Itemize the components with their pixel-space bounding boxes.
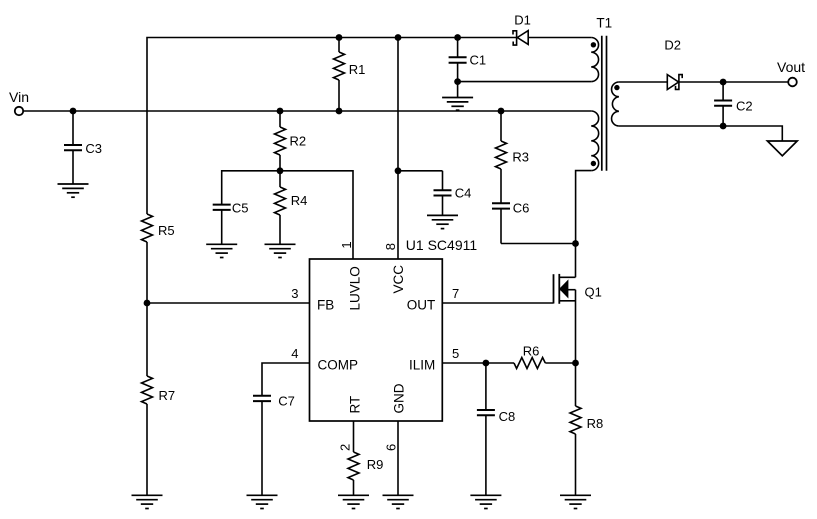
ground (C3) <box>58 184 89 197</box>
diode D1 (schottky, cathode left) <box>513 31 517 45</box>
svg-text:T1: T1 <box>596 15 612 30</box>
ground (C5) <box>206 244 237 257</box>
ground (R7) <box>132 495 163 508</box>
node C1 top junction <box>454 34 461 41</box>
diode D2 (schottky, cathode right) <box>667 75 678 90</box>
node R1 top junction <box>336 34 343 41</box>
svg-text:RT: RT <box>348 396 363 414</box>
svg-text:OUT: OUT <box>407 298 436 313</box>
transformer T1 secondary winding <box>612 82 619 126</box>
resistor R4 <box>279 171 281 187</box>
node R3 top junction <box>498 108 505 115</box>
svg-text:C8: C8 <box>499 409 516 424</box>
svg-text:7: 7 <box>452 286 459 301</box>
capacitor C1 <box>457 38 459 58</box>
svg-text:C2: C2 <box>736 99 753 114</box>
svg-text:Q1: Q1 <box>585 284 602 299</box>
node T1 aux phase dot <box>591 42 596 47</box>
wire secondary bottom lead <box>619 126 782 141</box>
node FB divider junction <box>144 300 151 307</box>
svg-text:Vout: Vout <box>777 59 805 75</box>
terminal Vin <box>15 107 23 115</box>
node C1 bottom junction <box>454 78 461 85</box>
ground (R4) <box>265 244 296 257</box>
resistor R7 <box>142 376 153 404</box>
svg-text:Vin: Vin <box>9 89 29 105</box>
resistor R3 <box>500 111 502 141</box>
resistor R8 <box>575 363 577 406</box>
svg-text:R2: R2 <box>290 134 307 149</box>
wire left vertical bottom (R7 to ground) <box>146 404 148 495</box>
svg-text:R9: R9 <box>367 457 384 472</box>
wire GND pin 6 <box>397 421 399 495</box>
capacitor C6 <box>492 202 510 204</box>
node C2 bottom junction <box>720 123 727 130</box>
node Vin/C3 junction <box>70 108 77 115</box>
svg-text:R6: R6 <box>523 344 540 359</box>
svg-text:FB: FB <box>317 298 334 313</box>
wire top rail left segment <box>147 38 517 215</box>
capacitor C8 <box>485 363 487 410</box>
svg-text:U1 SC4911: U1 SC4911 <box>406 237 478 253</box>
svg-text:R1: R1 <box>349 62 366 77</box>
wire Q1 source <box>575 290 577 363</box>
node T1 primary phase dot <box>591 161 596 166</box>
svg-text:C6: C6 <box>513 200 530 215</box>
node Q1 drain junction <box>572 240 579 247</box>
op-amp U1 IC body SC4911 <box>310 259 443 421</box>
svg-text:R4: R4 <box>291 193 308 208</box>
wire Q1 drain <box>575 244 577 278</box>
resistor R2 <box>279 111 281 127</box>
wire ILIM pin 5 <box>442 362 514 364</box>
terminal Vout <box>788 78 797 87</box>
resistor R6 <box>514 358 545 369</box>
capacitor C7 <box>253 395 271 397</box>
svg-text:C1: C1 <box>470 53 487 68</box>
ground (C4) <box>427 215 458 228</box>
svg-text:2: 2 <box>338 444 353 451</box>
svg-text:LUVLO: LUVLO <box>348 266 363 310</box>
transistor Q1 MOSFET <box>553 274 555 303</box>
ground triangle (output) <box>767 141 797 156</box>
wire secondary top lead to D2 <box>619 81 667 83</box>
node R1 bottom junction <box>336 108 343 115</box>
capacitor C2 <box>722 82 724 101</box>
wire RT pin 2 <box>353 421 355 452</box>
ground (R8) <box>560 495 591 508</box>
svg-text:D2: D2 <box>664 38 681 53</box>
svg-text:C7: C7 <box>278 393 295 408</box>
wire Vin rail <box>23 110 591 112</box>
svg-text:COMP: COMP <box>318 358 359 373</box>
ground (C1) <box>442 98 473 111</box>
resistor R9 <box>348 452 359 480</box>
ground (C8) <box>470 495 501 508</box>
transformer T1 primary aux winding <box>591 38 598 82</box>
svg-text:R8: R8 <box>587 416 604 431</box>
svg-text:8: 8 <box>383 243 398 250</box>
node R6/R8 junction <box>572 360 579 367</box>
svg-text:VCC: VCC <box>391 265 406 294</box>
resistor R1 <box>338 38 340 53</box>
svg-text:R7: R7 <box>159 388 176 403</box>
svg-text:5: 5 <box>452 346 459 361</box>
svg-text:C4: C4 <box>455 185 472 200</box>
capacitor C4 <box>442 171 444 190</box>
transformer T1 primary main winding <box>591 111 598 171</box>
svg-text:4: 4 <box>291 346 298 361</box>
wire VCC to C4 <box>398 170 443 172</box>
wire OUT pin 7 to Q1 gate <box>442 302 553 304</box>
wire C6 to drain node <box>501 243 576 245</box>
wire COMP pin 4 to C7 <box>262 363 310 396</box>
svg-text:1: 1 <box>339 241 354 248</box>
node T1 secondary phase dot <box>614 85 619 90</box>
wire C1 bottom to T1 aux winding <box>458 81 592 83</box>
svg-text:R3: R3 <box>512 149 529 164</box>
svg-text:ILIM: ILIM <box>409 358 435 373</box>
wire T1 primary bottom lead <box>576 171 592 244</box>
transformer T1 core <box>601 36 603 171</box>
svg-text:C5: C5 <box>232 201 249 216</box>
svg-text:D1: D1 <box>514 13 531 28</box>
node VCC top junction <box>395 34 402 41</box>
wire D2 to Vout <box>679 81 788 83</box>
ground (GND pin) <box>383 495 414 508</box>
node C2 top junction <box>720 79 727 86</box>
capacitor C5 <box>213 204 231 206</box>
ground (C7) <box>247 495 278 508</box>
svg-text:C3: C3 <box>85 141 102 156</box>
svg-text:6: 6 <box>383 444 398 451</box>
resistor R5 <box>142 214 153 242</box>
capacitor C3 <box>72 111 74 145</box>
node ILIM/C8 junction <box>483 360 490 367</box>
wire left vertical mid (R5 to R7 through FB node) <box>146 242 148 376</box>
svg-text:3: 3 <box>291 286 298 301</box>
ground (R9) <box>338 495 369 508</box>
wire top rail right segment (D1 to T1 primary aux) <box>528 37 591 39</box>
wire R2 bottom node row (C5 corner to pin1 corner) <box>222 171 353 259</box>
svg-text:R5: R5 <box>158 223 175 238</box>
wire VCC vertical (pin 8 to top rail) <box>397 38 399 260</box>
wire FB pin 3 <box>147 302 310 304</box>
node R2 top junction <box>277 108 284 115</box>
node VCC/C4 junction <box>395 167 402 174</box>
svg-text:GND: GND <box>392 383 407 413</box>
node R2/R4/C5 junction <box>277 167 284 174</box>
